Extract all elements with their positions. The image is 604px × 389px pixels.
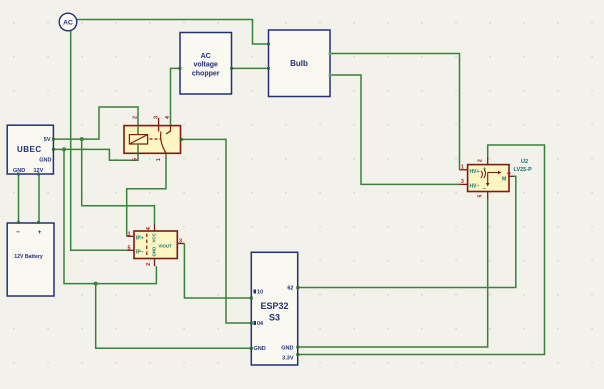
ESP32 pin connection squares: [250, 286, 299, 356]
svg-text:AC: AC: [63, 20, 73, 27]
svg-text:5V: 5V: [44, 137, 51, 143]
svg-text:3.3V: 3.3V: [282, 356, 294, 362]
wire: GND branch to ESP32 GND: [96, 284, 252, 349]
svg-text:5: 5: [133, 158, 139, 161]
svg-text:GND: GND: [281, 346, 293, 352]
relay common pin dot: [180, 138, 183, 141]
UBEC module: [7, 125, 55, 175]
svg-text:VIOUT: VIOUT: [159, 243, 173, 248]
wire: relay common to ESP32 pin 04: [181, 139, 251, 323]
relay coil wire segments inside body: [137, 126, 139, 154]
svg-text:5: 5: [128, 245, 131, 251]
svg-text:2: 2: [133, 116, 139, 119]
sensor pin numbers: [128, 226, 183, 266]
svg-text:IP+: IP+: [136, 236, 144, 242]
LV25-P pin stubs: [460, 158, 515, 199]
wire: relay NO pin down-left to sensor IP+: [127, 153, 166, 236]
wire: UBEC GND to relay coil pin 5: [53, 144, 138, 160]
svg-text:ESP32: ESP32: [260, 301, 288, 311]
svg-text:−: −: [483, 186, 486, 192]
wire: sensor VIOUT to ESP32 pin 16: [184, 244, 251, 299]
svg-text:5: 5: [478, 195, 484, 198]
svg-text:GND: GND: [151, 247, 156, 257]
svg-text:12V Battery: 12V Battery: [14, 254, 43, 260]
wire: LV25-P -V to ESP32 GND right: [298, 198, 488, 347]
wire: UBEC 5V to relay coil pin 2: [53, 107, 138, 139]
svg-text:voltage: voltage: [193, 62, 218, 69]
current sensor U1 ACS712: [127, 225, 185, 267]
svg-text:GND: GND: [39, 158, 51, 164]
junction at 5V branch: [80, 137, 84, 141]
battery BT1 12V: [7, 221, 54, 296]
wire: AC bottom down to IP- of current sensor: [71, 30, 127, 250]
svg-text:+: +: [38, 229, 42, 236]
svg-text:10: 10: [257, 290, 263, 296]
svg-text:+: +: [483, 166, 486, 172]
svg-text:M: M: [502, 177, 506, 183]
svg-text:2: 2: [478, 159, 484, 162]
relay dashed link: [150, 138, 162, 140]
wire: Bulb bottom-right to LV25-P HV-: [330, 75, 460, 184]
relay switch blade: [161, 132, 166, 153]
svg-text:3: 3: [179, 239, 182, 245]
junction GND/ESP32: [94, 282, 98, 286]
voltage sensor U2 LV25-P: [460, 158, 533, 199]
svg-text:VCC: VCC: [151, 232, 156, 242]
sensor dashed divider: [146, 234, 148, 257]
ESP32 S3: [250, 252, 299, 365]
junction at GND branch: [62, 147, 66, 151]
svg-text:LV25-P: LV25-P: [514, 167, 533, 173]
AC voltage chopper module: [179, 33, 233, 95]
svg-text:HV+: HV+: [470, 169, 480, 175]
wire: Bulb top-right to LV25-P HV+: [330, 54, 460, 170]
svg-text:HV−: HV−: [470, 184, 480, 190]
relay K1: [124, 115, 183, 161]
svg-text:Bulb: Bulb: [290, 59, 308, 68]
svg-text:−: −: [16, 229, 20, 236]
wire: 5V branch down to sensor VCC: [82, 139, 155, 224]
svg-text:04: 04: [257, 321, 264, 327]
svg-text:U2: U2: [521, 159, 528, 165]
relay pin numbers: [133, 115, 172, 161]
svg-text:S3: S3: [269, 313, 280, 323]
relay coil: [129, 135, 147, 144]
svg-text:3: 3: [461, 179, 464, 185]
wire: LV25-P +V to ESP32 3.3V: [298, 145, 545, 355]
wire: chopper right pin to Bulb: [232, 67, 269, 69]
wire: UBEC 12V bottom to battery plus: [38, 174, 40, 223]
wire: AC top to Bulb: [77, 20, 269, 45]
LV25-P pin numbers: [461, 159, 513, 198]
svg-text:AC: AC: [201, 53, 211, 60]
svg-text:3: 3: [153, 116, 159, 119]
svg-text:GND: GND: [254, 346, 266, 352]
svg-text:4: 4: [507, 172, 513, 175]
svg-text:62: 62: [287, 286, 293, 292]
LV25-P internal arrows: [481, 169, 502, 187]
wire: UBEC GND bottom to battery minus: [18, 174, 20, 223]
svg-text:1: 1: [128, 231, 131, 237]
svg-text:1: 1: [461, 165, 464, 171]
svg-text:IP−: IP−: [136, 250, 144, 256]
wire: GND branch down-right to sensor GND: [64, 149, 156, 283]
svg-text:2: 2: [146, 263, 152, 266]
Bulb: [267, 30, 331, 97]
wire: LV25-P M output to ESP32 pin 02: [298, 176, 516, 287]
sensor pin stubs: [127, 225, 185, 267]
svg-text:UBEC: UBEC: [17, 145, 42, 154]
relay pin stubs: [158, 118, 160, 132]
svg-text:chopper: chopper: [192, 71, 220, 78]
AC source AC1: [59, 13, 77, 31]
wire: relay NC top pin to AC voltage chopper left pin: [171, 68, 181, 125]
svg-text:1: 1: [156, 158, 162, 161]
